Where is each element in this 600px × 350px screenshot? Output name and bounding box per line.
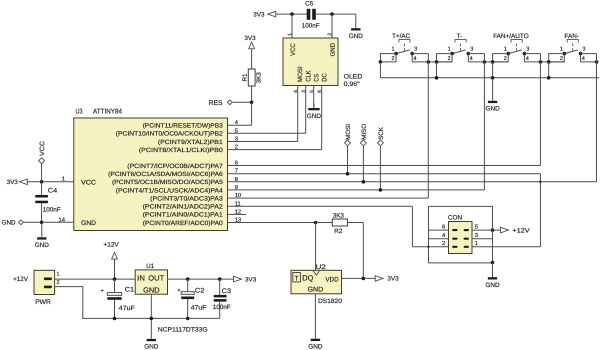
svg-text:1: 1: [560, 46, 563, 52]
svg-text:(PCINT8/XTAL1/CLKI)PB0: (PCINT8/XTAL1/CLKI)PB0: [139, 147, 224, 154]
wire CON pin 1 to PA6 column: [472, 246, 540, 248]
svg-text:R2: R2: [334, 228, 343, 235]
svg-text:3: 3: [526, 46, 529, 52]
svg-text:5: 5: [475, 224, 478, 230]
junction CON pin5/+12V vertical: [491, 228, 495, 232]
U2 T sensor box: [293, 273, 301, 282]
svg-text:(PCINT11/RESET/DW)PB3: (PCINT11/RESET/DW)PB3: [143, 123, 224, 130]
svg-text:1: 1: [475, 241, 478, 247]
svg-text:VCC: VCC: [39, 141, 46, 156]
wire PA3 (pin 10) to T+/AC column: [228, 197, 429, 199]
svg-text:+12V: +12V: [103, 241, 119, 248]
wire PWR pin1 to U1 IN: [55, 278, 136, 280]
svg-text:PWR: PWR: [35, 299, 51, 306]
wire PB2 (pin 5) to OLED CLK: [228, 132, 306, 134]
wire S2 ground to rail: [436, 62, 438, 78]
svg-text:DQ: DQ: [302, 274, 313, 283]
connector CON box: [449, 222, 473, 254]
wire SCK flag down to row: [379, 146, 381, 190]
svg-text:4: 4: [470, 56, 473, 62]
junction PA0/R2/DQ: [314, 221, 318, 225]
svg-text:SCK: SCK: [378, 126, 385, 140]
wire RES flag to junction: [232, 101, 251, 103]
svg-text:4: 4: [442, 233, 446, 239]
crossing smudge PA6/PA5: [539, 181, 541, 183]
connector PWR box: [34, 270, 55, 294]
net flag 3V3 (above R1, open arrow up): [249, 42, 255, 49]
wire 3V3 to C5 left: [276, 13, 307, 15]
wire S2 signal down to PA4 row: [483, 54, 485, 190]
pushbutton S2 T-: [437, 33, 485, 62]
svg-text:6: 6: [442, 223, 445, 230]
svg-text:3: 3: [475, 232, 478, 239]
svg-text:VDD: VDD: [325, 277, 338, 284]
svg-text:4: 4: [526, 56, 529, 62]
svg-text:NCP1117DT33G: NCP1117DT33G: [158, 326, 208, 333]
wire PA2 (pin 11) toward CON pin 2: [228, 205, 413, 207]
svg-text:1: 1: [287, 33, 293, 36]
junction rail/S4 ground: [547, 76, 551, 80]
wire 3V3 to U3 VCC pin 1: [27, 181, 73, 183]
wire PA4 (pin 9) SCK row to T- column: [228, 189, 485, 191]
capacitor C1 plates (polarized): [107, 293, 121, 300]
svg-text:(PCINT2/AIN1/ADC2)PA2: (PCINT2/AIN1/ADC2)PA2: [143, 204, 224, 211]
svg-text:+12V: +12V: [13, 276, 29, 283]
wire to OLED pin 2 (GND): [331, 14, 333, 38]
svg-text:C1: C1: [125, 286, 135, 293]
ground (buttons rail): [485, 78, 500, 113]
svg-text:T: T: [295, 275, 299, 282]
junction +12V/C1: [113, 277, 117, 281]
svg-text:2: 2: [57, 280, 60, 286]
net flag VCC (diamond): [39, 158, 45, 164]
svg-text:GND: GND: [308, 287, 324, 294]
junction S4 signal tap: [595, 60, 599, 64]
junction OUT/C3: [218, 277, 222, 281]
svg-text:3K3: 3K3: [333, 212, 345, 219]
svg-text:(PCINT9/XTAL2)PB1: (PCINT9/XTAL2)PB1: [158, 139, 224, 146]
IC U2 DS1820 box: [291, 270, 342, 294]
junction C5-left / OLED VCC: [290, 12, 294, 16]
OLED display module box: [283, 38, 338, 86]
ground (below C4): [35, 222, 50, 249]
wire CON bottom horizontal to GND: [429, 262, 493, 264]
svg-text:2: 2: [392, 56, 395, 62]
svg-text:2: 2: [442, 240, 445, 247]
wire S1 signal down to PA3 row: [427, 54, 429, 199]
wire U1 GND down: [150, 294, 152, 339]
svg-text:3V3: 3V3: [244, 35, 256, 42]
svg-text:1: 1: [392, 46, 395, 52]
svg-text:47uF: 47uF: [119, 305, 135, 312]
svg-text:GND: GND: [2, 220, 16, 227]
wire CON pin 3 stub: [472, 238, 493, 240]
svg-text:GND: GND: [81, 220, 96, 227]
junction S1 ground tap: [379, 60, 383, 64]
svg-text:GND: GND: [307, 113, 322, 120]
svg-text:2: 2: [560, 56, 563, 62]
wire MOSI flag down to row: [347, 146, 349, 174]
svg-text:+: +: [177, 288, 181, 294]
pushbutton S4 FAN-: [549, 33, 597, 62]
svg-text:3: 3: [414, 46, 417, 52]
svg-text:(PCINT5/OC1B/MISO/DO/ADC5)PA5: (PCINT5/OC1B/MISO/DO/ADC5)PA5: [112, 179, 223, 186]
junction S1 signal tap: [427, 60, 431, 64]
wire +12V vertical / GND drop: [492, 206, 494, 277]
wire GND flag to U3 GND pin 14: [23, 221, 73, 223]
svg-text:DS1820: DS1820: [318, 298, 343, 305]
wire U1 OUT to 3V3 flag: [168, 278, 234, 280]
wire DQ vertical: [315, 223, 317, 271]
wire R2 right: [347, 222, 363, 224]
wire CON pin 5 to +12V flag: [472, 229, 500, 231]
svg-text:3V3: 3V3: [245, 276, 257, 283]
svg-text:100nF: 100nF: [302, 23, 320, 30]
svg-text:2: 2: [448, 56, 451, 62]
svg-text:FAN+/AUTO: FAN+/AUTO: [493, 33, 529, 40]
svg-text:GND: GND: [485, 282, 500, 289]
junction S3 ground tap: [491, 60, 495, 64]
svg-text:3: 3: [582, 46, 585, 52]
svg-text:C2: C2: [195, 288, 205, 295]
svg-text:+12V: +12V: [512, 227, 530, 234]
svg-text:(PCINT6/OC1A/SDA/MOSI/ADC6)PA6: (PCINT6/OC1A/SDA/MOSI/ADC6)PA6: [108, 171, 223, 178]
svg-text:GND: GND: [144, 343, 159, 350]
svg-text:3V3: 3V3: [253, 11, 265, 18]
svg-text:IN: IN: [137, 274, 145, 283]
wire R2 left: [316, 222, 333, 224]
capacitor C5 plates: [307, 9, 316, 20]
net flag 3V3 (top, open arrow): [268, 11, 276, 17]
net flag +12V (CON, open arrow): [500, 227, 508, 233]
wire +12V top horizontal: [429, 205, 493, 207]
svg-text:DC: DC: [321, 73, 328, 82]
wire OLED CS down to ground: [313, 86, 315, 109]
junction S2 ground tap: [435, 60, 439, 64]
wire OLED MOSI down to PB1 row: [297, 86, 299, 142]
svg-text:T-: T-: [457, 33, 463, 40]
svg-text:(PCINT10/INT0/OC0A/CKOUT)PB2: (PCINT10/INT0/OC0A/CKOUT)PB2: [116, 131, 224, 138]
wire S3 ground to rail: [492, 62, 494, 78]
wire VCC flag down to pin 1 row: [41, 164, 43, 182]
net flag 3V3 (left, open arrow): [19, 179, 27, 185]
IC U1 regulator box: [135, 270, 167, 294]
svg-text:3V3: 3V3: [7, 179, 19, 186]
wire CON left vertical: [428, 206, 430, 263]
svg-text:(PCINT1/AIN0/ADC1)PA1: (PCINT1/AIN0/ADC1)PA1: [143, 212, 224, 219]
svg-text:GND: GND: [485, 106, 500, 113]
wire U2 VDD to 3V3 flag: [342, 277, 376, 279]
wire CON pin 4 stub: [429, 238, 449, 240]
svg-text:3V3: 3V3: [387, 276, 399, 283]
wire to C1 top: [114, 279, 116, 293]
svg-text:1: 1: [448, 46, 451, 52]
pushbutton S3 FAN+/AUTO: [493, 33, 541, 62]
svg-text:100nF: 100nF: [213, 304, 231, 311]
net flag SCK (diamond): [377, 140, 383, 146]
pushbutton S1 T+/AC: [380, 33, 428, 62]
wire S4 signal down to PA5 row: [596, 54, 598, 182]
wire S3 signal down to PA7 row: [539, 54, 541, 166]
svg-text:2: 2: [504, 56, 507, 62]
resistor R1 body: [248, 69, 255, 86]
junction S2 signal tap: [483, 60, 487, 64]
svg-text:R1: R1: [242, 73, 249, 81]
wire PA6 row down to CON pin 1: [539, 174, 541, 247]
wire junction down to PB3 row: [251, 102, 253, 125]
junction VCC/C4: [40, 180, 44, 184]
svg-text:VCC: VCC: [290, 43, 297, 56]
svg-text:C5: C5: [305, 1, 314, 8]
svg-text:GND: GND: [308, 343, 323, 350]
svg-text:OLED: OLED: [344, 74, 363, 81]
wire C3 top: [219, 279, 221, 295]
wire PA5 (pin 8) MISO row to FAN- column: [228, 181, 597, 183]
wire OLED DC down to PB0 row: [321, 86, 323, 150]
svg-text:MOSI: MOSI: [345, 124, 352, 140]
wire C3 bottom to rail end: [219, 302, 221, 319]
junction U1 GND/rail: [150, 317, 154, 321]
button ground rail: [380, 77, 599, 79]
wire PA6 (pin 7) MOSI row to CON column: [228, 173, 541, 175]
svg-text:(PCINT3/T0/ADC3)PA3: (PCINT3/T0/ADC3)PA3: [150, 195, 223, 202]
wire S1 ground to rail: [379, 62, 381, 78]
net flag +12V (open arrow up): [112, 252, 118, 259]
wire +12V flag down: [114, 259, 116, 279]
ground (OLED CS): [307, 103, 322, 120]
wire S4 ground to rail: [548, 62, 550, 78]
svg-text:VCC: VCC: [81, 180, 96, 187]
wire to OLED pin 1 (VCC): [291, 14, 293, 38]
junction MOSI: [346, 172, 350, 176]
svg-text:4: 4: [582, 56, 585, 62]
svg-text:100nF: 100nF: [43, 207, 61, 214]
junction rail/S2 ground: [435, 76, 439, 80]
svg-text:+: +: [101, 288, 105, 294]
junction rail/S3 ground: [491, 76, 495, 80]
U2 DQ input arrow: [313, 271, 319, 275]
wire 3V3 arrow to R1 top: [251, 49, 253, 69]
wire PWR pin2 to bottom rail: [55, 287, 220, 319]
junction CON GND: [491, 261, 495, 265]
ground (top right of C5): [349, 14, 364, 40]
svg-text:1: 1: [504, 46, 507, 52]
junction GND/C4 bottom: [40, 221, 44, 225]
net flag RES (diamond): [227, 100, 232, 105]
capacitor C4 plates: [35, 195, 48, 203]
wire C5 right to GND branch: [316, 13, 356, 15]
svg-text:CON: CON: [448, 215, 463, 222]
junction MISO: [362, 180, 366, 184]
net flag GND (left diamond): [19, 220, 24, 225]
junction VDD/R2: [362, 277, 366, 281]
svg-text:3: 3: [470, 46, 473, 52]
svg-text:(PCINT7/ICP/OC0B/ADC7)PA7: (PCINT7/ICP/OC0B/ADC7)PA7: [127, 163, 223, 170]
junction OUT/C2: [186, 277, 190, 281]
resistor R2 body: [332, 219, 347, 226]
wire OLED CLK down to PB2 row: [305, 86, 307, 134]
svg-text:0.96": 0.96": [344, 81, 361, 88]
svg-text:CS: CS: [313, 73, 320, 81]
wire PB1 (pin 3) to OLED MOSI: [228, 141, 298, 143]
net flag 3V3 (U1 out, open arrow): [234, 276, 242, 282]
svg-text:C3: C3: [222, 288, 232, 295]
svg-text:OUT: OUT: [148, 274, 164, 283]
junction C2/rail: [186, 317, 190, 321]
wire C2 bottom to rail: [187, 299, 189, 318]
wire PB3 (pin 4) to R1/RES net: [228, 124, 252, 126]
svg-text:GND: GND: [349, 33, 364, 40]
wire PA2 corner vertical: [411, 206, 413, 246]
ground (U1): [144, 339, 159, 350]
wire PB0 (pin 2) to OLED DC: [228, 149, 322, 151]
IC U3 ATTINY84 box: [74, 118, 228, 231]
svg-text:FAN-: FAN-: [564, 33, 579, 40]
junction SCK: [379, 188, 383, 192]
CON pads: [452, 229, 469, 248]
junction RES/R1/PB3: [250, 101, 254, 105]
wire R2 to VDD node: [362, 223, 364, 279]
wire MISO flag down to row: [362, 146, 364, 182]
wire C4 bottom to GND row: [41, 203, 43, 222]
wire CON pin 2 from PA2: [412, 246, 448, 248]
svg-text:1: 1: [57, 272, 60, 278]
ground (CON): [485, 263, 500, 290]
wire PA7 (pin 6) to FAN+/AUTO button column: [228, 165, 541, 167]
wire PA1 (pin 12) stub: [228, 213, 247, 215]
junction S3 signal tap: [539, 60, 543, 64]
wire R1 bottom to RES junction: [251, 86, 253, 102]
svg-text:U1: U1: [146, 263, 155, 270]
net flag 3V3 (U2, open arrow): [375, 276, 383, 282]
svg-text:RES: RES: [209, 100, 223, 107]
wire S2 signal column to S3 left side: [484, 61, 508, 63]
svg-text:U3: U3: [76, 109, 83, 116]
net flag MISO (diamond): [360, 140, 366, 146]
svg-text:GND: GND: [330, 43, 337, 57]
PWR pads: [44, 278, 52, 289]
ground (U2): [308, 294, 323, 350]
svg-text:MOSI: MOSI: [297, 66, 304, 82]
svg-text:MISO: MISO: [361, 124, 368, 140]
svg-text:CLK: CLK: [305, 70, 312, 82]
svg-text:C4: C4: [48, 188, 58, 195]
capacitor C3 plates: [214, 295, 227, 302]
svg-text:47uF: 47uF: [191, 305, 207, 312]
wire S1 signal column to S2 left side: [428, 61, 452, 63]
svg-text:(PCINT4/T1/SCL/USCK/ADC4)PA4: (PCINT4/T1/SCL/USCK/ADC4)PA4: [116, 187, 224, 194]
wire C2 top: [187, 279, 189, 292]
net flag MOSI (diamond): [345, 140, 351, 146]
svg-text:(PCINT0/AREF/ADC0)PA0: (PCINT0/AREF/ADC0)PA0: [143, 220, 224, 227]
wire S3 signal column to S4 left side: [541, 61, 565, 63]
svg-text:4: 4: [414, 56, 417, 62]
wire C1 bottom to rail: [114, 300, 116, 319]
junction C1/rail: [113, 317, 117, 321]
wire CON pin 6 stub: [429, 229, 449, 231]
capacitor C2 plates (polarized): [181, 292, 194, 299]
svg-text:ATTINY84: ATTINY84: [93, 109, 122, 116]
junction S4 ground tap: [547, 60, 551, 64]
wire junction to C4 top: [41, 182, 43, 195]
svg-text:3K3: 3K3: [255, 72, 262, 84]
svg-text:GND: GND: [143, 285, 160, 294]
wire PA0 (pin 13) to DQ/R2 junction: [228, 222, 316, 224]
svg-text:U2: U2: [316, 264, 327, 271]
svg-text:GND: GND: [35, 242, 50, 249]
junction C5-right / OLED GND: [330, 12, 334, 16]
svg-text:2: 2: [327, 33, 333, 36]
crossing smudge CON pin2: [427, 246, 429, 248]
svg-text:T+/AC: T+/AC: [392, 33, 411, 40]
